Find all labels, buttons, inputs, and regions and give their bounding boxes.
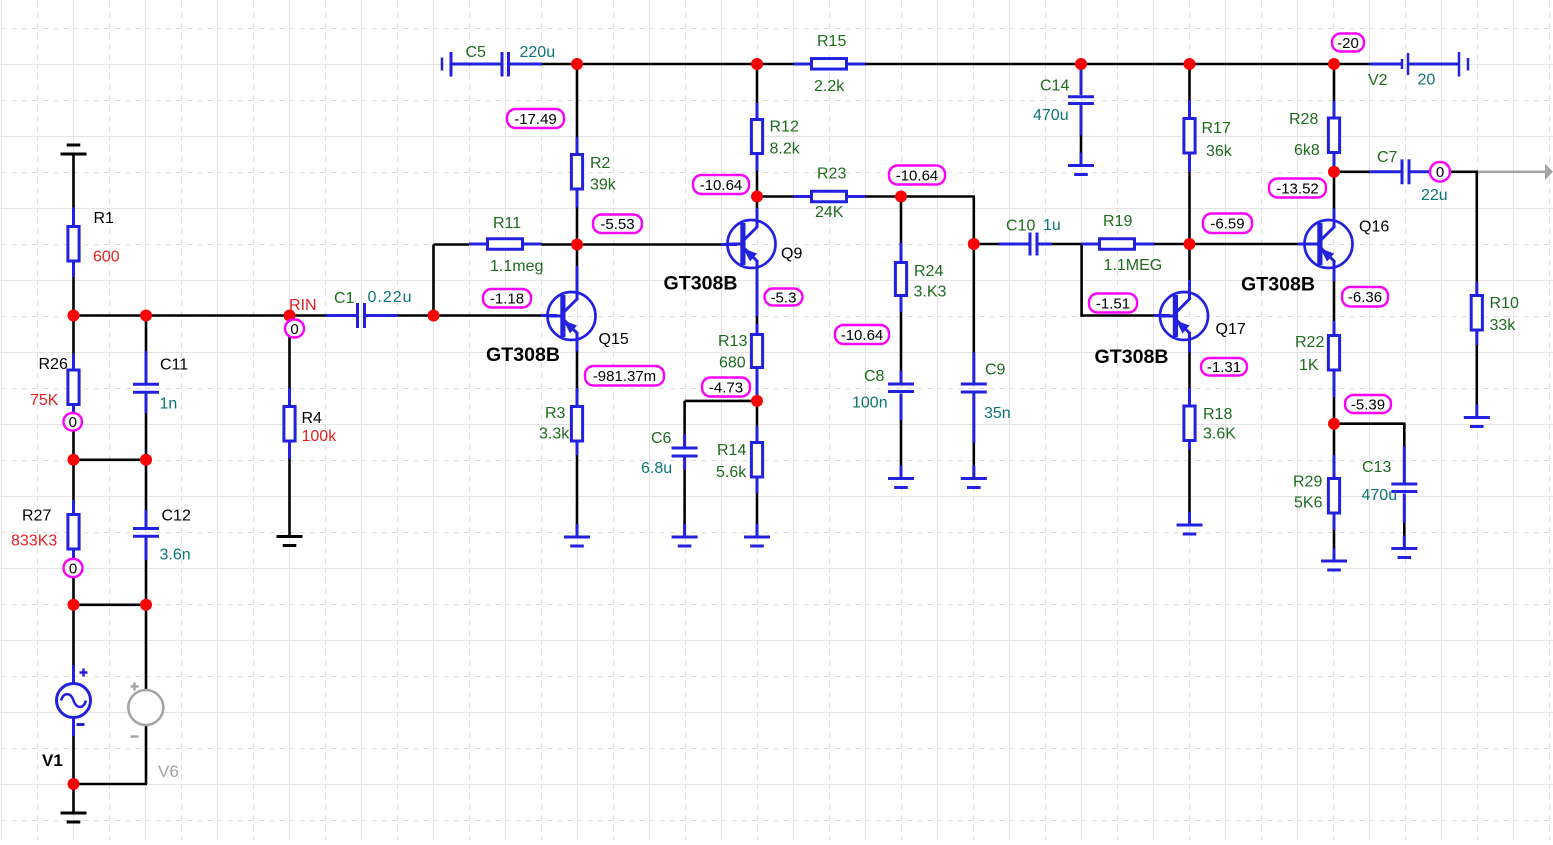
svg-text:R4: R4 — [302, 410, 323, 427]
svg-text:-20: -20 — [1337, 35, 1359, 52]
voltage box -5.53 — [593, 215, 642, 234]
svg-text:R11: R11 — [493, 215, 521, 232]
svg-text:-10.64: -10.64 — [896, 167, 939, 184]
svg-text:C1: C1 — [334, 290, 355, 307]
wire: column x=684.6 (C6) — [683, 401, 686, 447]
svg-text:Q16: Q16 — [1359, 219, 1389, 236]
resistor R28 — [1328, 118, 1339, 153]
capacitor C14 — [1068, 95, 1094, 98]
junction node rail/R28/V2 — [1328, 58, 1340, 70]
svg-text:R2: R2 — [590, 155, 611, 172]
voltage box -1.31 — [1201, 358, 1247, 376]
svg-text:35n: 35n — [984, 405, 1011, 422]
wire: R23 row y=196.5 — [757, 195, 794, 198]
junction node R12/R23/Q9 — [751, 191, 763, 203]
svg-text:R17: R17 — [1202, 120, 1231, 137]
svg-text:R13: R13 — [718, 333, 747, 350]
resistor R2 — [571, 155, 582, 190]
ground (C9) — [961, 477, 987, 480]
battery V2 — [1401, 59, 1404, 69]
resistor R17 — [1184, 119, 1195, 154]
svg-text:600: 600 — [93, 249, 120, 266]
voltage box -1.18 — [483, 289, 531, 308]
voltage box -1.51 — [1089, 294, 1137, 313]
wire: column x=433.5 (R11 up-leg) — [432, 245, 435, 316]
svg-text:-4.73: -4.73 — [709, 379, 743, 396]
svg-text:R29: R29 — [1293, 474, 1322, 491]
capacitor C8 — [888, 383, 914, 386]
svg-text:-1.31: -1.31 — [1207, 359, 1241, 376]
svg-text:3.K3: 3.K3 — [914, 284, 947, 301]
svg-text:R1: R1 — [94, 210, 115, 227]
svg-text:1K: 1K — [1299, 357, 1319, 374]
wire: C7 output row y=172 — [1334, 171, 1370, 174]
svg-text:C10: C10 — [1006, 218, 1035, 235]
svg-text:680: 680 — [719, 354, 746, 371]
wire: R27/C12 row y=605 — [74, 603, 147, 606]
wire: column x=577 (R2/Q15/R3) — [576, 64, 579, 153]
svg-text:-6.59: -6.59 — [1210, 216, 1244, 233]
wire: top rail y=64 — [542, 63, 578, 66]
wire: column x=1081.6 (Q17 base leg) — [1080, 244, 1083, 317]
junction node R17/R19/Q16/Q17 — [1184, 238, 1196, 250]
capacitor C5 — [441, 58, 444, 71]
wire: R29/C13 row y=424 — [1334, 422, 1406, 425]
resistor R4 — [284, 407, 295, 442]
svg-text:-981.37m: -981.37m — [593, 368, 656, 385]
wire: column x=1476.8 (R10) — [1476, 172, 1479, 294]
svg-text:GT308B: GT308B — [1095, 346, 1169, 368]
svg-text:0: 0 — [290, 321, 298, 338]
svg-text:75K: 75K — [30, 392, 59, 409]
svg-text:-17.49: -17.49 — [514, 111, 557, 128]
svg-text:R27: R27 — [22, 508, 51, 525]
capacitor C7 — [1401, 159, 1404, 184]
junction node V1 ground — [68, 778, 80, 790]
junction node C9/C10 — [968, 238, 980, 250]
svg-text:GT308B: GT308B — [1241, 274, 1315, 296]
capacitor C11 — [133, 383, 159, 386]
resistor R23 — [812, 191, 847, 202]
wire: column x=73.5 (R1/R26/R27/V1) — [72, 154, 75, 225]
resistor R19 — [1100, 239, 1135, 250]
wire: column x=1081 (C14) — [1080, 64, 1083, 95]
junction node C1/Q15 base — [428, 310, 440, 322]
svg-text:-5.3: -5.3 — [771, 289, 797, 306]
junction node R1/C11 input row left — [68, 310, 80, 322]
ground (R14) — [744, 536, 770, 539]
svg-text:-10.64: -10.64 — [700, 177, 743, 194]
junction node R23/R24 — [895, 191, 907, 203]
svg-text:C7: C7 — [1377, 149, 1398, 166]
voltage box -5.3 — [765, 289, 803, 306]
svg-text:2.2k: 2.2k — [814, 78, 845, 95]
junction node rail/C5/R2 — [571, 58, 583, 70]
svg-text:C9: C9 — [985, 362, 1006, 379]
svg-text:3.3k: 3.3k — [539, 426, 570, 443]
voltage box -17.49 — [507, 109, 564, 128]
svg-text:C8: C8 — [864, 368, 885, 385]
capacitor C12 — [133, 527, 159, 530]
ground (R4) — [277, 535, 303, 538]
capacitor C10 — [1029, 233, 1032, 256]
ground (C14) — [1068, 164, 1094, 167]
svg-text:0: 0 — [69, 414, 77, 431]
svg-text:R28: R28 — [1289, 111, 1318, 128]
wire: column x=973.8 (C9) — [972, 197, 975, 383]
svg-text:33k: 33k — [1490, 317, 1517, 334]
junction node R13/R14/C6 — [751, 395, 763, 407]
transistor Q15 — [548, 292, 596, 340]
junction node R2/R11/Q15 — [571, 239, 583, 251]
wire: column x=757 (R12/Q9/R13/R14) — [756, 64, 759, 118]
junction node rail/C14 — [1075, 58, 1087, 70]
svg-text:100k: 100k — [302, 428, 338, 445]
svg-text:R10: R10 — [1490, 295, 1519, 312]
svg-text:6k8: 6k8 — [1294, 142, 1320, 159]
wire: column x=1404.3 (C13) — [1403, 424, 1406, 483]
svg-text:R14: R14 — [717, 442, 746, 459]
svg-text:R3: R3 — [545, 405, 566, 422]
svg-text:0: 0 — [69, 560, 77, 577]
junction node R28/C7/Q16 — [1328, 166, 1340, 178]
node 0 (output) — [1430, 162, 1450, 182]
voltage box -6.36 — [1342, 287, 1388, 307]
svg-text:3.6K: 3.6K — [1203, 426, 1236, 443]
resistor R13 — [751, 335, 762, 368]
svg-text:22u: 22u — [1421, 187, 1448, 204]
svg-text:5K6: 5K6 — [1294, 495, 1323, 512]
node 0 (R27) — [64, 559, 83, 577]
svg-text:833K3: 833K3 — [11, 533, 57, 550]
svg-text:-1.51: -1.51 — [1096, 295, 1130, 312]
source V1 — [57, 684, 91, 718]
svg-text:470u: 470u — [1362, 487, 1398, 504]
svg-text:1u: 1u — [1043, 217, 1061, 234]
svg-text:-5.39: -5.39 — [1351, 396, 1385, 413]
voltage box -20 — [1332, 34, 1364, 52]
wire: column x=289.5 (R4) — [288, 316, 291, 406]
svg-text:C13: C13 — [1362, 459, 1391, 476]
resistor R3 — [571, 407, 582, 442]
svg-text:39k: 39k — [590, 177, 617, 194]
junction node RIN — [284, 310, 296, 322]
resistor R1 — [68, 227, 79, 262]
node 0 (RIN) — [285, 320, 304, 338]
resistor R18 — [1184, 406, 1195, 441]
svg-text:20: 20 — [1418, 72, 1436, 89]
capacitor C13 — [1391, 483, 1417, 486]
ground (R10) — [1464, 416, 1490, 419]
svg-text:GT308B: GT308B — [486, 344, 560, 366]
resistor R10 — [1471, 296, 1482, 331]
svg-text:24K: 24K — [815, 204, 844, 221]
svg-text:220u: 220u — [520, 44, 556, 61]
junction node rail/R17 — [1184, 58, 1196, 70]
junction node R27/V1 — [68, 599, 80, 611]
transistor Q16 — [1305, 220, 1353, 268]
svg-text:-13.52: -13.52 — [1276, 180, 1319, 197]
svg-text:R22: R22 — [1295, 334, 1324, 351]
capacitor C9 — [961, 383, 987, 386]
resistor R27 — [68, 515, 79, 550]
svg-text:1.1MEG: 1.1MEG — [1104, 257, 1163, 274]
voltage box -10.64 (node R12/R23) — [693, 175, 749, 194]
resistor R11 — [488, 239, 523, 250]
svg-text:3.6n: 3.6n — [160, 547, 191, 564]
voltage box -13.52 — [1269, 179, 1326, 198]
svg-text:V6: V6 — [158, 762, 179, 781]
resistor R22 — [1328, 336, 1339, 371]
svg-text:8.2k: 8.2k — [770, 141, 801, 158]
capacitor C6 — [672, 447, 698, 450]
svg-text:1.1meg: 1.1meg — [490, 258, 543, 275]
junction node C11/C12 — [140, 454, 152, 466]
svg-text:V1: V1 — [42, 751, 63, 770]
svg-text:R19: R19 — [1103, 213, 1132, 230]
svg-text:Q9: Q9 — [781, 246, 802, 263]
wire: C6 branch y=401 — [685, 400, 757, 403]
junction node C11 top — [140, 310, 152, 322]
ground (V1) — [61, 812, 87, 815]
voltage box -4.73 — [702, 378, 750, 397]
ground (C6) — [672, 536, 698, 539]
svg-text:-1.18: -1.18 — [490, 291, 524, 308]
resistor R14 — [751, 443, 762, 478]
svg-text:0.22u: 0.22u — [368, 289, 413, 306]
svg-text:C14: C14 — [1040, 78, 1069, 95]
ground (C8) — [888, 477, 914, 480]
wire: column x=146 (C11/C12/V6) — [145, 316, 148, 383]
wire: R26/C11 row y=460 — [74, 458, 147, 461]
svg-text:C12: C12 — [162, 508, 191, 525]
resistor R29 — [1328, 479, 1339, 514]
resistor R24 — [895, 263, 906, 296]
svg-text:GT308B: GT308B — [664, 273, 738, 295]
svg-text:Q17: Q17 — [1216, 321, 1246, 338]
voltage box -6.59 — [1203, 214, 1252, 234]
svg-text:C5: C5 — [466, 44, 487, 61]
resistor R26 — [68, 370, 79, 405]
svg-text:R24: R24 — [914, 263, 943, 280]
svg-text:C6: C6 — [651, 430, 672, 447]
junction node R22/R29/C13 — [1328, 418, 1340, 430]
wire: Q17 base row — [1080, 314, 1155, 317]
svg-text:-5.53: -5.53 — [600, 216, 634, 233]
svg-text:-6.36: -6.36 — [1348, 289, 1382, 306]
svg-text:Q15: Q15 — [599, 331, 629, 348]
voltage box -981.37m — [585, 366, 664, 386]
voltage box -10.64 (node R23/R24) — [889, 166, 945, 185]
junction node R26/C11 row — [68, 454, 80, 466]
ground (R18) — [1177, 524, 1203, 527]
wire: column x=1189.5 (R17/Q17/R18) — [1188, 64, 1191, 117]
wire: input row y=315.5 — [74, 314, 291, 317]
voltage box -5.39 — [1345, 395, 1391, 413]
wire: base row y=244 — [434, 243, 470, 246]
svg-text:R12: R12 — [770, 119, 799, 136]
capacitor C1 — [356, 303, 359, 328]
svg-text:C11: C11 — [160, 357, 188, 374]
ground (R3) — [564, 536, 590, 539]
svg-text:R26: R26 — [39, 356, 68, 373]
svg-text:R18: R18 — [1203, 406, 1232, 423]
junction node rail/R12 — [751, 58, 763, 70]
svg-text:36k: 36k — [1206, 143, 1233, 160]
svg-text:0: 0 — [1436, 164, 1444, 181]
svg-text:470u: 470u — [1033, 107, 1069, 124]
svg-text:100n: 100n — [852, 395, 888, 412]
node 0 (R26) — [64, 413, 83, 431]
resistor R15 — [812, 59, 847, 70]
resistor R12 — [751, 120, 762, 154]
blue component leads — [72, 207, 75, 225]
svg-text:-10.64: -10.64 — [841, 327, 884, 344]
wire: column x=901 (R24/C8) — [900, 197, 903, 262]
ground (top-left, inverted) — [61, 153, 87, 156]
svg-text:5.6k: 5.6k — [716, 464, 747, 481]
voltage box -10.64 (node R24/C8) — [835, 325, 889, 344]
source V6 — [128, 690, 163, 725]
wire: V1/V6 bottom y=784 — [74, 783, 148, 786]
junction node C12/V6 — [140, 599, 152, 611]
ground (C13) — [1391, 547, 1417, 550]
svg-text:R23: R23 — [817, 166, 846, 183]
output arrow (gray) — [1478, 171, 1546, 174]
svg-text:R15: R15 — [817, 33, 846, 50]
transistor Q17 — [1160, 292, 1208, 340]
svg-text:1n: 1n — [160, 395, 178, 412]
wire: column x=1334 (R28/Q16/R22/R29) — [1333, 64, 1336, 117]
svg-text:V2: V2 — [1368, 72, 1388, 89]
svg-text:6.8u: 6.8u — [641, 460, 672, 477]
svg-text:RIN: RIN — [289, 297, 317, 314]
transistor Q9 — [728, 220, 776, 268]
ground (R29) — [1321, 560, 1347, 563]
